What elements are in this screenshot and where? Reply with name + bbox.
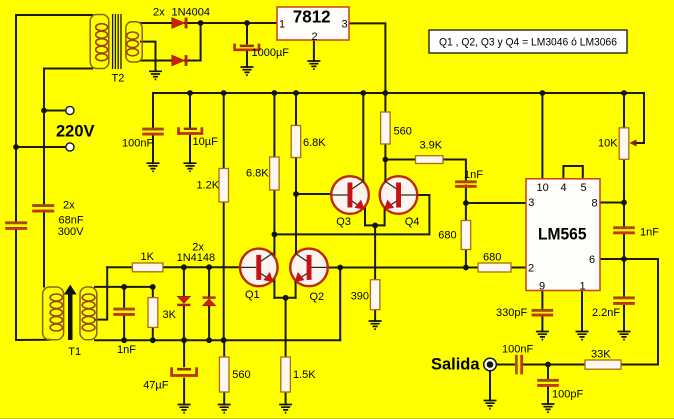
- svg-text:1000µF: 1000µF: [252, 47, 290, 59]
- resistor 1.5K: [281, 357, 291, 392]
- capacitor 68nF upper: [32, 204, 54, 212]
- label 330pF: [496, 307, 527, 319]
- node 560 3.9K junction: [383, 157, 389, 163]
- label 390: [351, 291, 369, 303]
- wire pin 6 node to 33K right: [621, 259, 658, 365]
- wire 1K left lead: [107, 266, 132, 268]
- label 2.2nF: [592, 307, 620, 319]
- node rail Q3 collector: [360, 90, 366, 96]
- svg-text:1nF: 1nF: [117, 344, 136, 356]
- label 1nF T1: [117, 344, 136, 356]
- wire rail to Q3 collector: [362, 93, 364, 186]
- wire 47uF top lead: [183, 340, 185, 366]
- pin 3 7812: [342, 19, 348, 31]
- wire T2 primary bottom: [44, 69, 92, 204]
- wire LM565 pin 9 to 330pF: [541, 291, 543, 309]
- label 1N4004: [172, 6, 211, 18]
- wire 10uF ground lead: [189, 134, 191, 163]
- resistor 680 vertical: [461, 221, 471, 250]
- PLL U1 LM565: [526, 179, 600, 291]
- wire 47uF ground lead: [183, 379, 185, 405]
- label 560 second: [232, 369, 250, 381]
- transformer T1 tuning arrow: [64, 285, 77, 340]
- wire D3 bottom lead: [183, 306, 185, 340]
- wire node to LM565 pin 3: [466, 202, 526, 204]
- svg-text:1.2K: 1.2K: [197, 179, 220, 191]
- wire T2 secondary top to D1: [141, 22, 172, 24]
- svg-text:100pF: 100pF: [552, 388, 583, 400]
- label 7812: [293, 6, 331, 26]
- wire D4 bottom lead: [208, 306, 210, 340]
- wire 1K node down to T1 tap: [95, 267, 107, 319]
- label 1N4148: [177, 252, 216, 264]
- svg-text:2.2nF: 2.2nF: [592, 307, 620, 319]
- label Q4: [405, 216, 420, 228]
- node 220V lower junction: [13, 144, 19, 150]
- wire 330pF ground lead: [541, 316, 543, 331]
- label 220V: [56, 121, 95, 140]
- node bottom rail D4: [206, 337, 212, 343]
- terminal Salida jack: [484, 358, 497, 371]
- transistor Q3: [331, 176, 369, 214]
- wire 100pF ground lead: [547, 387, 549, 404]
- wire rail to 6.8K first: [273, 93, 275, 157]
- wire 560 second ground lead: [223, 392, 225, 405]
- wire LM565 pin 1 to ground: [581, 291, 583, 332]
- ground 100pF: [542, 404, 555, 412]
- svg-text:68nF: 68nF: [59, 214, 84, 226]
- node 1000uF junction: [244, 20, 250, 26]
- node Q3 base branch: [293, 191, 299, 197]
- label Q1: [245, 289, 260, 301]
- wire 7812 pin 2 to ground: [313, 40, 315, 61]
- svg-text:300V: 300V: [58, 226, 84, 238]
- pin 8 LM565: [592, 197, 598, 209]
- ground 7812 pin 2: [307, 61, 320, 69]
- svg-text:Q4: Q4: [405, 216, 420, 228]
- capacitor 1nF T1: [113, 308, 135, 316]
- svg-text:T1: T1: [68, 346, 81, 358]
- wire 1nF to 680 vertical: [465, 186, 467, 221]
- node Q1 Q2 emitter junction: [283, 295, 289, 301]
- resistor 3.9K: [416, 156, 444, 164]
- svg-text:10K: 10K: [598, 137, 618, 149]
- label 33K: [591, 348, 611, 360]
- wire 100nF to 33K: [524, 364, 585, 366]
- svg-text:390: 390: [351, 291, 369, 303]
- node bottom rail 47uF: [181, 337, 187, 343]
- node 220V upper junction: [41, 108, 47, 114]
- wire 680 to LM565 pin 2: [511, 267, 526, 269]
- node bottom rail 3K: [150, 337, 156, 343]
- diode D4 1N4148: [203, 296, 216, 305]
- ground 560 second: [218, 405, 231, 413]
- svg-text:1: 1: [580, 281, 586, 293]
- svg-text:1N4148: 1N4148: [177, 252, 216, 264]
- label 680 vertical: [438, 230, 456, 242]
- wire Q4 emitter stub: [384, 200, 386, 225]
- svg-text:1nF: 1nF: [464, 169, 483, 181]
- label 1nF VCO: [640, 226, 659, 238]
- svg-text:560: 560: [232, 369, 250, 381]
- svg-text:1nF: 1nF: [640, 226, 659, 238]
- ground LM565 pin 1: [576, 332, 589, 340]
- ground 330pF: [536, 332, 549, 340]
- node rail 6.8K second: [293, 90, 299, 96]
- label 3.9K: [420, 139, 443, 151]
- label T2: [112, 72, 125, 84]
- wire Salida jack to 100nF: [497, 364, 515, 366]
- wire rail to 560 second: [223, 340, 225, 357]
- svg-text:7812: 7812: [293, 6, 331, 26]
- wire 10uF top lead: [189, 93, 191, 128]
- svg-text:5: 5: [581, 182, 587, 194]
- wire Q1 Q2 emitter join: [274, 297, 295, 299]
- wire 10K bottom to 1nF node: [623, 159, 625, 226]
- node D1 D2 cathode junction: [198, 20, 204, 26]
- pin 9 LM565: [539, 281, 545, 293]
- wire +12V rail: [153, 92, 624, 94]
- label 10K: [598, 137, 618, 149]
- capacitor 68nF lower: [5, 221, 27, 230]
- terminal 220V lower: [66, 143, 74, 151]
- wire mains line top: [16, 14, 92, 16]
- wire T2 secondary bottom to D2: [141, 60, 172, 62]
- ground Salida jack: [484, 401, 497, 409]
- label 2x diodes top: [153, 6, 165, 18]
- svg-text:9: 9: [539, 281, 545, 293]
- capacitor 100nF output: [515, 355, 523, 375]
- wire T2 center tap: [141, 42, 156, 71]
- svg-text:Q2: Q2: [310, 291, 325, 303]
- wire bottom rail: [95, 339, 340, 341]
- wire rail to LM565 pin 10: [541, 93, 543, 179]
- pin 2 LM565: [528, 263, 534, 275]
- svg-text:1N4004: 1N4004: [172, 6, 211, 18]
- note text: [439, 36, 617, 48]
- transformer T2 secondary winding: [126, 22, 142, 62]
- svg-text:T2: T2: [112, 72, 125, 84]
- resistor 390: [370, 280, 380, 310]
- label 1K: [141, 251, 155, 263]
- wire rail to 560: [384, 93, 386, 112]
- regulator U2 7812: [277, 7, 349, 40]
- label 1000uF: [252, 47, 290, 59]
- transistor Q1: [240, 249, 278, 287]
- ground 100nF rail: [147, 163, 160, 171]
- capacitor 10uF electrolytic: [179, 127, 202, 133]
- ground 1000uF: [241, 67, 254, 75]
- wire Q2 base node down to bottom rail: [339, 268, 341, 341]
- svg-text:3: 3: [528, 197, 534, 209]
- bottom edge shade: [0, 418, 674, 419]
- wire 680 bottom lead: [465, 250, 467, 268]
- svg-text:10: 10: [537, 182, 549, 194]
- svg-text:Salida: Salida: [431, 355, 480, 374]
- wire rail to 6.8K second: [295, 93, 297, 126]
- wire Q3 emitter stub: [364, 200, 366, 225]
- wire Q2 base stub: [326, 267, 340, 269]
- svg-text:1: 1: [279, 19, 285, 31]
- label 2x 68nF: [63, 199, 75, 211]
- label 100nF output: [502, 343, 533, 355]
- resistor 1.2K: [219, 169, 229, 203]
- pin 4 LM565: [561, 182, 567, 194]
- wire 1000uF top lead: [246, 23, 248, 43]
- wire T2 primary to T1 primary: [43, 211, 45, 287]
- svg-text:560: 560: [394, 125, 412, 137]
- svg-text:2x: 2x: [63, 199, 75, 211]
- ground 1.5K: [279, 405, 292, 413]
- label 6.8K second: [303, 137, 326, 149]
- wire T1 secondary top: [95, 286, 153, 288]
- svg-text:6.8K: 6.8K: [246, 168, 269, 180]
- terminal 220V upper: [66, 106, 74, 114]
- svg-text:100nF: 100nF: [502, 343, 533, 355]
- node Q2 base junction: [337, 265, 343, 271]
- svg-text:3.9K: 3.9K: [420, 139, 443, 151]
- svg-text:680: 680: [483, 251, 501, 263]
- wire 3K top lead: [152, 287, 154, 298]
- wire 220V terminal lower: [16, 146, 66, 148]
- diode D3 1N4148: [177, 296, 190, 306]
- svg-text:Q3: Q3: [336, 216, 351, 228]
- wire D3 top lead: [183, 267, 185, 296]
- wire rail to 10K top: [623, 93, 625, 128]
- svg-text:2: 2: [312, 31, 318, 43]
- wire 3.9K right to 1nF: [443, 160, 466, 181]
- wire 100nF C5 ground lead: [152, 135, 154, 163]
- capacitor 2.2nF: [613, 296, 635, 305]
- wire mains left vertical upper: [15, 15, 17, 221]
- transistor Q2: [290, 249, 328, 287]
- diode D1 1N4004: [172, 18, 188, 29]
- wire 1.2K bottom to bottom rail: [223, 202, 225, 340]
- label 680 horizontal: [483, 251, 501, 263]
- node T1 top 1nF: [121, 284, 127, 290]
- pin 5 LM565: [581, 182, 587, 194]
- wire Q1 emitter stub: [273, 273, 275, 298]
- wire Salida jack ground lead: [489, 372, 491, 401]
- label 1nF demodulator: [464, 169, 483, 181]
- wire 1K right to Q1 base: [163, 266, 242, 268]
- wire emitters to 1.5K: [285, 298, 287, 357]
- node rail 10K: [621, 90, 627, 96]
- wire rail to 1.2K: [223, 93, 225, 169]
- wire Q3 Q4 emitter join: [365, 224, 385, 226]
- svg-text:2: 2: [528, 263, 534, 275]
- capacitor 100pF: [537, 379, 559, 387]
- svg-text:1K: 1K: [141, 251, 155, 263]
- ground 390: [369, 321, 382, 329]
- resistor 680 horizontal: [478, 263, 511, 272]
- capacitor 100nF rail: [142, 128, 164, 136]
- node rail 1.2K: [221, 90, 227, 96]
- wire node to 3.9K left: [385, 159, 415, 161]
- wire 3K bottom lead: [152, 327, 154, 340]
- svg-text:33K: 33K: [591, 348, 611, 360]
- label 47uF: [143, 380, 169, 392]
- wire 6.8K to Q2 collector: [295, 158, 297, 259]
- resistor 33K: [585, 360, 621, 369]
- wire 1nF to 2.2nF node: [623, 234, 625, 296]
- label T1: [68, 346, 81, 358]
- wire mains left vertical lower: [16, 230, 50, 340]
- resistor 6.8K second: [291, 126, 301, 158]
- svg-text:8: 8: [592, 197, 598, 209]
- label 68nF: [59, 214, 84, 226]
- wire 100nF C5 top lead: [152, 93, 154, 127]
- resistor 560: [381, 112, 391, 144]
- svg-text:4: 4: [561, 182, 567, 194]
- transistor Q4: [380, 176, 418, 214]
- wire 220V terminal upper: [44, 110, 66, 112]
- label 6.8K first: [246, 168, 269, 180]
- wire Q2 emitter stub: [295, 273, 297, 298]
- capacitor 47uF electrolytic: [172, 367, 197, 375]
- resistor 6.8K first: [270, 157, 280, 190]
- node D4 cathode junction: [206, 264, 212, 270]
- wire emitters to 390: [374, 225, 376, 279]
- svg-text:10µF: 10µF: [193, 136, 219, 148]
- node rail 10uF: [187, 90, 193, 96]
- transformer T1 secondary winding: [80, 287, 97, 340]
- node pin 6 junction: [621, 256, 627, 262]
- pin 1 LM565: [580, 281, 586, 293]
- svg-text:330pF: 330pF: [496, 307, 527, 319]
- node Salida 100pF: [545, 362, 551, 368]
- svg-text:1.5K: 1.5K: [293, 369, 316, 381]
- node pin 8 junction: [621, 200, 627, 206]
- label 2x diodes bottom: [192, 242, 204, 254]
- wire 2.2nF ground lead: [623, 306, 625, 332]
- transformer T1 primary winding: [43, 287, 64, 340]
- label Q3: [336, 216, 351, 228]
- pin 3 LM565: [528, 197, 534, 209]
- ground 10uF: [184, 163, 197, 171]
- potentiometer 10K: [619, 128, 636, 160]
- wire Q1 collector node to Q4 base: [274, 195, 429, 234]
- capacitor 1nF demodulator: [455, 180, 477, 187]
- node pin 2 junction: [463, 265, 469, 271]
- wire Q2 base node to 680 horizontal: [340, 267, 478, 269]
- resistor 560 second: [219, 357, 229, 392]
- node Q3 Q4 emitter junction: [372, 223, 378, 229]
- ground T2 center tap: [149, 71, 162, 79]
- label 100pF: [552, 388, 583, 400]
- svg-text:680: 680: [438, 230, 456, 242]
- label 560: [394, 125, 412, 137]
- diode D2 1N4004: [172, 55, 188, 66]
- label 10uF: [193, 136, 219, 148]
- svg-text:Q1: Q1: [245, 289, 260, 301]
- ground 47uF: [178, 405, 191, 413]
- pin 6 LM565: [589, 254, 595, 266]
- node T1 top 3K: [150, 284, 156, 290]
- svg-text:6: 6: [589, 254, 595, 266]
- svg-text:6.8K: 6.8K: [303, 137, 326, 149]
- svg-text:220V: 220V: [56, 121, 95, 140]
- wire 1000uF bottom lead: [246, 51, 248, 67]
- wire D4 top lead: [208, 267, 210, 296]
- resistor 3K: [148, 298, 158, 328]
- ground 2.2nF: [618, 332, 631, 340]
- capacitor 330pF: [532, 309, 554, 317]
- node rail 560: [383, 90, 389, 96]
- svg-text:47µF: 47µF: [143, 380, 169, 392]
- label LM565: [538, 226, 587, 244]
- wire LM565 pin 6: [600, 258, 624, 260]
- svg-text:2x: 2x: [153, 6, 165, 18]
- note box: [429, 30, 627, 53]
- svg-text:3: 3: [342, 19, 348, 31]
- label 3K: [163, 309, 177, 321]
- wire LM565 pin 8: [600, 202, 624, 204]
- transformer T2 core: [113, 14, 121, 69]
- wire 1nF T1 bottom lead: [123, 316, 125, 340]
- wire 100pF top lead: [547, 365, 549, 379]
- label Q2: [310, 291, 325, 303]
- svg-text:100nF: 100nF: [122, 138, 153, 150]
- wire D2 output up to node: [185, 23, 201, 61]
- wire 390 ground lead: [374, 310, 376, 321]
- wire 560 to Q4 collector: [384, 144, 386, 187]
- wire LM565 pin 4-5 jumper: [563, 166, 582, 179]
- svg-text:Q1 , Q2, Q3 y Q4 = LM3046 ó LM: Q1 , Q2, Q3 y Q4 = LM3046 ó LM3066: [439, 36, 617, 48]
- svg-text:3K: 3K: [163, 309, 177, 321]
- wire Q2 collector node to Q3 base: [296, 193, 334, 195]
- transformer T2 primary winding: [90, 15, 109, 69]
- node bottom rail 1.2K: [221, 337, 227, 343]
- pin 2 7812: [312, 31, 318, 43]
- wire 1.5K ground lead: [285, 392, 287, 405]
- label 300V: [58, 226, 84, 238]
- wire 6.8K to Q1 collector: [273, 190, 275, 262]
- label Salida: [431, 355, 480, 374]
- pin 1 7812: [279, 19, 285, 31]
- label 1.5K: [293, 369, 316, 381]
- wire rectified output to 7812 pin 1: [185, 22, 277, 24]
- wire 7812 pin 3 to +12V rail: [349, 23, 385, 93]
- capacitor 1000uF electrolytic: [235, 44, 259, 50]
- node rail pin 10: [540, 90, 546, 96]
- label 1.2K: [197, 179, 220, 191]
- svg-text:LM565: LM565: [538, 226, 587, 244]
- node rail 6.8K first: [272, 90, 278, 96]
- capacitor 1nF VCO right: [613, 226, 635, 234]
- node Q1 collector branch: [272, 232, 278, 238]
- label 100nF rail: [122, 138, 153, 150]
- node D3 anode junction: [181, 264, 187, 270]
- pin 10 LM565: [537, 182, 549, 194]
- node bottom rail 1nF: [121, 337, 127, 343]
- wire 10K wiper loop: [624, 93, 644, 143]
- node pin 3 junction: [463, 200, 469, 206]
- wire 1nF T1 top lead: [123, 287, 125, 307]
- resistor 1K: [132, 263, 163, 272]
